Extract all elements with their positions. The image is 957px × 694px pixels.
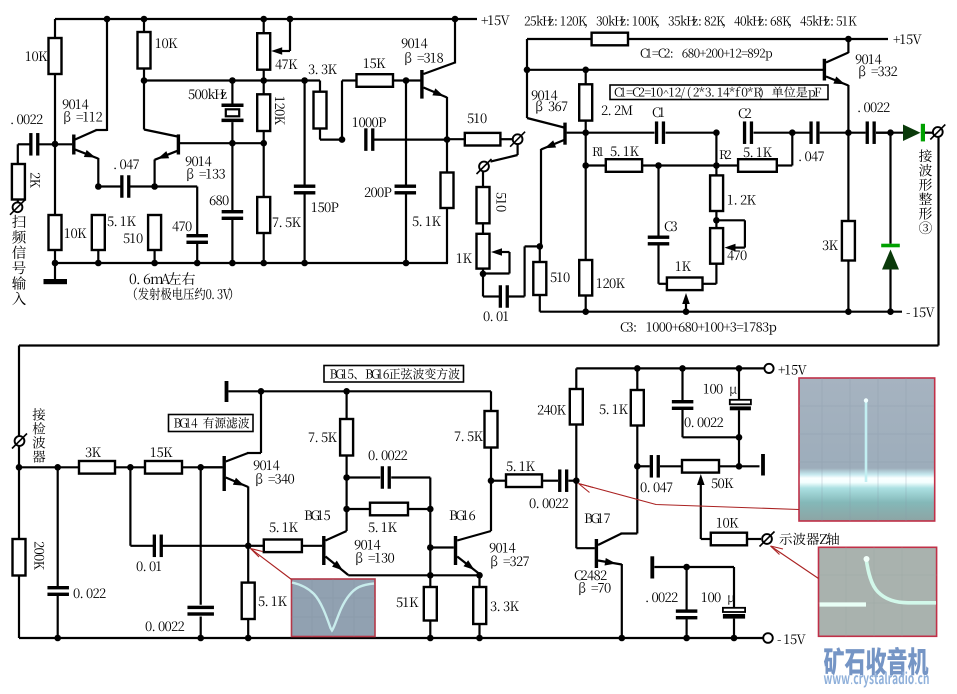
wire <box>716 219 745 221</box>
box label BG15/BG16 <box>324 366 464 383</box>
label frequency/resistor table <box>525 15 857 28</box>
terminal to waveform shaping (3) <box>933 127 943 137</box>
resistor R2 5.1K <box>738 159 777 172</box>
emitter arrow Q1 <box>84 150 96 158</box>
capacitor 0.022 <box>47 586 68 589</box>
annotation arrow to BG14 emitter node <box>251 549 292 580</box>
capacitor 100u electrolytic (-15V) <box>723 608 745 612</box>
junction 1.2K top <box>713 162 720 169</box>
capacitor 0.0022 (base to rail) <box>187 606 214 609</box>
label 200K <box>34 542 44 570</box>
label 10K <box>65 228 87 238</box>
junction 470 top <box>713 217 720 224</box>
junction <box>634 365 641 372</box>
wire <box>657 166 659 236</box>
transistor Q2 9014 beta=133 base bar <box>177 134 180 154</box>
label 5.1K <box>369 522 397 532</box>
wire Q4 collector diagonal <box>527 118 564 128</box>
wire <box>304 194 306 263</box>
wire top border of lower section <box>19 344 939 346</box>
wire <box>483 272 510 274</box>
wire <box>847 39 849 53</box>
wire BG14 base <box>201 466 223 468</box>
wire ground rail (left oscillator section) <box>55 262 448 264</box>
junction <box>95 260 102 267</box>
wire <box>642 164 716 166</box>
wire <box>54 144 56 215</box>
label .0022 <box>646 592 677 602</box>
potentiometer 470 <box>710 228 723 264</box>
label 0.0022 <box>685 417 724 427</box>
wire <box>716 164 738 166</box>
wire <box>585 121 587 133</box>
label 10K <box>717 518 739 528</box>
node Q1 emitter <box>95 183 102 190</box>
junction BG14 collector <box>258 388 265 395</box>
wire <box>500 138 512 140</box>
junction feedback top <box>343 474 350 481</box>
wire <box>660 465 682 467</box>
resistor 510 (link series) <box>477 187 490 223</box>
wire <box>585 166 587 261</box>
emitter arrow BG17 <box>605 558 616 565</box>
wire <box>738 410 740 466</box>
label 2K <box>31 173 41 188</box>
wire Q5 emitter <box>826 77 848 86</box>
label 10K <box>26 51 48 61</box>
wire <box>681 368 683 400</box>
wire <box>143 19 145 32</box>
label .0022 <box>11 114 42 124</box>
junction <box>683 308 690 315</box>
wire <box>18 143 30 145</box>
junction <box>619 635 626 642</box>
junction <box>452 16 459 23</box>
junction <box>16 464 23 471</box>
wire <box>777 164 793 166</box>
wire <box>715 211 717 228</box>
wire <box>393 79 421 81</box>
wire <box>231 122 233 143</box>
label beta=112 <box>64 111 102 124</box>
label 3K <box>86 447 101 457</box>
label 510 <box>551 272 570 282</box>
capacitor .0022 (to detector) <box>866 121 869 144</box>
oscilloscope photo 3 (notch response) <box>292 579 376 637</box>
wire Q2 base <box>180 142 264 144</box>
wire <box>57 596 59 638</box>
label 0.6mA current note <box>130 272 195 285</box>
wire Q5 collector <box>826 53 848 63</box>
wire <box>200 467 202 605</box>
emitter arrow Q2 <box>158 151 170 159</box>
junction <box>887 308 894 315</box>
resistor 7.5K (BG16 collector load) <box>485 411 498 448</box>
wire <box>304 81 306 186</box>
transistor Q1 9014 beta=112 base bar <box>72 135 75 155</box>
wire <box>482 172 484 187</box>
resistor 10K (Q1 base lower divider) <box>49 215 62 250</box>
label 5.1K <box>600 404 628 414</box>
wire <box>792 132 809 134</box>
wire <box>889 133 891 244</box>
label C3 <box>665 221 677 231</box>
resistor 5.1K (Q3 emitter) <box>441 173 454 209</box>
label BG16 <box>450 510 475 520</box>
ground <box>54 263 56 279</box>
capacitor C2 <box>743 121 746 144</box>
wire <box>97 158 99 187</box>
wire +15V rail (right section) <box>527 38 888 40</box>
wire <box>247 546 249 583</box>
wire <box>17 200 19 203</box>
resistor 3K (input) <box>79 461 115 474</box>
label 15K <box>364 58 386 68</box>
label BG14 active filter <box>174 417 249 429</box>
wire 47K wiper return <box>289 19 291 51</box>
wire <box>539 295 541 312</box>
transistor BG15 9014 beta=130 base bar <box>322 536 325 565</box>
junction BG16 base tap <box>427 544 434 551</box>
capacitor plate (BG14 collector probe) <box>225 381 229 402</box>
junction 47K/120K tap <box>260 77 267 84</box>
wire <box>54 74 56 144</box>
junction rail/Q1 collector <box>104 16 111 23</box>
label .0022 <box>858 102 889 112</box>
junction 7.5K top <box>343 388 350 395</box>
terminal -15V (lower) <box>763 633 773 643</box>
label 0.01 <box>484 311 508 321</box>
label 510 <box>468 113 487 123</box>
resistor 1.2K <box>710 175 723 211</box>
label 5.1K <box>259 596 287 606</box>
resistor 120K (node A to -15V) <box>579 260 592 296</box>
wire <box>847 261 849 312</box>
label 9014 (BG14) <box>254 460 280 470</box>
junction 120K/Q2 base <box>260 140 267 147</box>
wire <box>346 456 348 532</box>
wire <box>659 283 667 285</box>
wire <box>848 132 865 134</box>
wire <box>347 476 381 478</box>
junction <box>287 16 294 23</box>
potentiometer 47K <box>257 33 270 69</box>
resistor 15K (input) <box>145 461 182 474</box>
wire <box>657 245 659 283</box>
capacitor 1000P <box>364 128 367 151</box>
wire Q4 base <box>567 132 586 134</box>
wire Q2 collector diagonal <box>144 130 178 137</box>
wire <box>719 465 739 467</box>
annotation arrow to Z-axis terminal <box>771 546 819 579</box>
capacitor 150P <box>294 185 316 188</box>
wire BG16 collector <box>457 531 491 541</box>
terminal detector input <box>15 436 25 446</box>
wire Q1 collector to +15V <box>106 19 108 131</box>
wiper arrow 1K filter pot <box>682 293 690 304</box>
label to-waveform-shaping vertical text <box>919 149 932 162</box>
label beta=130 <box>356 552 394 565</box>
wire <box>247 487 249 546</box>
label 5.1K <box>108 216 136 226</box>
wire Q3 collector <box>424 63 456 75</box>
wire <box>196 244 198 264</box>
wire <box>129 467 131 546</box>
node BG14 base <box>197 464 204 471</box>
wire <box>54 19 56 38</box>
box label BG14 <box>169 415 254 432</box>
label emitter voltage note <box>134 288 232 301</box>
junction <box>127 464 134 471</box>
label 9014 (Q3) <box>402 38 428 48</box>
node Q2 emitter <box>151 183 158 190</box>
wire <box>700 484 702 539</box>
junction <box>151 260 158 267</box>
node Q3 base <box>403 77 410 84</box>
label 510 <box>496 193 506 212</box>
junction crystal top <box>229 77 236 84</box>
wire <box>130 545 153 547</box>
label 3.3K <box>309 64 337 74</box>
label 0.0022 <box>530 498 569 508</box>
terminal oscilloscope Z-axis <box>762 534 772 544</box>
wire <box>247 619 249 638</box>
wire <box>429 621 431 639</box>
wire <box>508 252 510 274</box>
label detector-input vertical text <box>33 408 46 420</box>
resistor 51K <box>424 587 437 621</box>
junction <box>736 463 743 470</box>
label 2.2M <box>602 105 633 115</box>
label 0.0022 <box>146 621 185 631</box>
junction <box>480 271 487 278</box>
label 120K <box>597 278 625 288</box>
wire BG16 base <box>430 546 454 548</box>
label beta=133 <box>187 168 225 181</box>
transistor BG14 9014 beta=340 base bar <box>223 456 226 491</box>
capacitor 0.0022 (+15V decoupling) <box>672 400 694 403</box>
wire <box>446 208 448 263</box>
wire <box>342 79 357 81</box>
wire <box>482 223 484 234</box>
label 680 <box>210 195 229 205</box>
label 9014 (Q2) <box>186 156 212 166</box>
resistor 510 (Q2 emitter) <box>148 215 161 250</box>
junction crystal/Q2 base <box>229 140 236 147</box>
wire <box>97 250 99 263</box>
wire <box>143 69 145 81</box>
label C1=C2 value note <box>641 49 772 61</box>
wire <box>231 81 233 104</box>
resistor 240K <box>570 389 583 425</box>
wire <box>586 132 655 134</box>
junction diode tap <box>887 129 894 136</box>
label C1 <box>653 107 664 117</box>
junction <box>194 260 201 267</box>
transistor Q4 9014 beta=367 base bar <box>563 123 566 145</box>
terminal oscillator output <box>513 134 523 144</box>
label C2482 <box>575 570 607 580</box>
wire Q1 collector <box>75 130 97 140</box>
wire <box>163 545 249 547</box>
capacitor 200P <box>395 185 417 188</box>
wire <box>319 81 321 92</box>
resistor 3.3K <box>314 92 327 129</box>
capacitor 0.01 <box>499 285 502 308</box>
capacitor .0022 (sweep input coupling) <box>29 133 32 156</box>
resistor 7.5K <box>257 197 270 233</box>
wire left edge down to detector input <box>18 346 20 639</box>
wire <box>701 538 711 540</box>
junction <box>339 136 346 143</box>
label 扫频信号输入 (sweep signal input) <box>12 215 25 228</box>
label 7.5K <box>309 433 337 443</box>
wire <box>490 391 492 411</box>
label R2 <box>720 150 731 159</box>
label 7.5K <box>273 218 301 228</box>
capacitor 0.0022 (BG17 input) <box>558 469 561 492</box>
resistor 2K (input) <box>12 164 25 200</box>
resistor 5.1K (BG14 emitter to rail) <box>242 583 255 619</box>
wiper arrow 47K <box>271 47 282 55</box>
crystal 500kHz <box>222 104 244 108</box>
terminal filter input link <box>479 162 489 172</box>
wire <box>733 619 735 638</box>
resistor 5.1K (BG15 base feed) <box>264 540 302 553</box>
label beta=367 <box>536 101 567 114</box>
wire <box>685 303 687 312</box>
emitter arrow Q5 <box>833 77 845 85</box>
emitter arrow BG15 <box>332 561 343 571</box>
wire <box>248 545 264 547</box>
wire Q1 base <box>55 143 72 145</box>
wire <box>490 448 492 532</box>
label 10K <box>156 38 178 48</box>
resistor 5.1K (Q1 emitter) <box>92 215 105 250</box>
junction <box>245 635 252 642</box>
junction <box>260 16 267 23</box>
wire <box>115 466 145 468</box>
junction <box>634 463 641 470</box>
wire <box>621 564 623 638</box>
wire <box>525 245 540 247</box>
resistor 3K <box>842 221 855 261</box>
resistor 2.2M <box>579 84 592 120</box>
terminal +15V (lower) <box>764 364 773 373</box>
wire <box>685 619 687 638</box>
wire <box>405 194 407 263</box>
wire BG14 collector <box>226 453 248 462</box>
label 1K <box>457 253 472 263</box>
capacitor 680 <box>222 210 244 213</box>
wire <box>685 567 687 610</box>
wire <box>408 508 430 510</box>
label 9014 (BG15) <box>355 540 381 550</box>
wire <box>98 185 121 187</box>
junction <box>683 564 690 571</box>
wire BG14 emitter <box>226 478 248 488</box>
resistor 510 (Q4 emitter) <box>533 262 546 295</box>
node B <box>789 129 796 136</box>
potentiometer 50K <box>682 460 719 473</box>
wire <box>39 143 55 145</box>
label 3K <box>823 240 838 250</box>
wire <box>154 250 156 263</box>
label oscilloscope Z axis <box>779 533 839 545</box>
resistor R1 5.1K <box>606 159 642 172</box>
wire <box>57 467 59 586</box>
transistor BG16 9014 beta=327 base bar <box>454 536 457 565</box>
junction <box>52 260 59 267</box>
wire <box>683 436 740 438</box>
label 51K <box>397 597 419 607</box>
label C2 <box>739 108 751 118</box>
wire <box>876 132 903 134</box>
wire <box>429 478 431 510</box>
wire <box>374 139 447 141</box>
wire <box>446 97 448 140</box>
logo url www.crystalradio.cn <box>824 671 929 687</box>
junction Q5 emitter/output <box>845 129 852 136</box>
wire <box>539 246 541 262</box>
junction <box>524 67 531 74</box>
wire <box>636 466 638 533</box>
wire <box>263 233 265 263</box>
node BG16 emitter <box>476 572 483 579</box>
label 47K <box>275 59 297 69</box>
wire -15V bottom rail <box>19 637 763 639</box>
node M (C1/C2 mid) <box>713 129 720 136</box>
emitter arrow BG14 <box>233 478 245 486</box>
oscilloscope photo 1 (marker spike) <box>799 378 935 521</box>
junction <box>229 260 236 267</box>
label beta=70 <box>579 582 610 595</box>
wire <box>405 81 407 185</box>
wire <box>889 270 891 312</box>
wire Q4 collector <box>526 39 528 118</box>
wire Q4 emitter <box>541 140 564 150</box>
transistor Q5 9014 beta=332 base bar <box>823 59 826 81</box>
wire <box>196 187 198 235</box>
annotation arrow to BG17 base <box>579 484 800 510</box>
junction C3 top <box>655 162 662 169</box>
capacitor C1 <box>655 121 658 144</box>
label 100u <box>702 592 735 604</box>
label 9014 (Q4) <box>532 90 558 100</box>
node BG16 collector <box>488 477 495 484</box>
junction 51K top <box>427 572 434 579</box>
junction <box>736 434 743 441</box>
junction <box>537 243 544 250</box>
wire <box>263 131 265 143</box>
wire right-edge return <box>937 137 939 346</box>
wire Q2 emitter <box>155 151 178 160</box>
wire <box>478 575 480 587</box>
label beta=332 <box>859 66 897 79</box>
junction <box>845 308 852 315</box>
wire <box>346 391 348 419</box>
wire <box>540 149 542 246</box>
label -15V <box>778 634 806 644</box>
label beta=340 <box>256 473 294 486</box>
wire BG15 emitter <box>326 557 349 576</box>
node Q1 base <box>52 141 59 148</box>
wire <box>263 70 265 95</box>
wire <box>260 391 262 453</box>
resistor frequency-select (892p row) <box>592 33 628 46</box>
label C formula <box>615 86 821 99</box>
resistor 510 (output) <box>465 133 501 146</box>
